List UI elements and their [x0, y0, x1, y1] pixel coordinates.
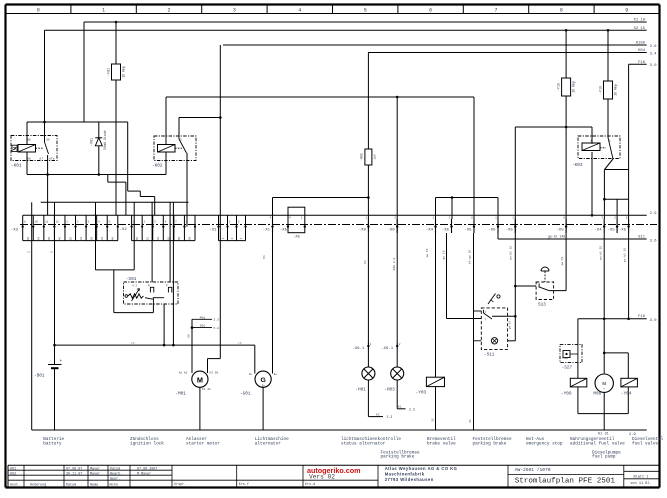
svg-text:K1 31: K1 31 [202, 388, 211, 391]
svg-text:3: 3 [233, 7, 236, 13]
svg-text:-X5: -X5 [607, 229, 615, 233]
svg-text:1: 1 [165, 139, 167, 142]
svg-text:additional fuel valve: additional fuel valve [570, 441, 625, 446]
svg-text:S13: S13 [538, 303, 546, 308]
svg-text:battery: battery [43, 441, 62, 446]
svg-text:5: 5 [180, 139, 182, 142]
svg-text:-X3: -X3 [11, 229, 19, 233]
svg-text:2.3: 2.3 [409, 408, 415, 412]
svg-text:-H03: -H03 [384, 388, 395, 393]
svg-text:-X1: -X1 [209, 229, 217, 233]
svg-text:-Y04: -Y04 [621, 392, 632, 397]
svg-text:6: 6 [429, 7, 432, 13]
svg-text:1: 1 [102, 7, 105, 13]
svg-text:86: 86 [27, 139, 31, 142]
svg-text:-X1: -X1 [263, 229, 271, 233]
svg-text:31: 31 [80, 237, 83, 241]
svg-text:16 Amp: 16 Amp [613, 84, 617, 96]
svg-text:12: 12 [56, 221, 60, 224]
svg-text:-S01: -S01 [126, 277, 137, 282]
svg-text:Stromlaufplan PFE 2501: Stromlaufplan PFE 2501 [515, 478, 616, 486]
svg-text:2: 2 [167, 7, 170, 13]
svg-text:ge-bl 140: ge-bl 140 [548, 235, 565, 239]
svg-text:0: 0 [37, 7, 40, 13]
svg-text:-X5: -X5 [293, 236, 301, 240]
svg-text:2.9: 2.9 [650, 212, 658, 216]
svg-text:F16: F16 [638, 61, 646, 65]
svg-text:fuel valve: fuel valve [632, 441, 658, 446]
svg-text:-M01: -M01 [175, 392, 186, 397]
svg-text:54: 54 [189, 237, 192, 241]
svg-text:rt: rt [238, 342, 242, 345]
svg-text:X2 15: X2 15 [634, 27, 646, 31]
svg-text:-X5: -X5 [464, 229, 472, 233]
svg-text:4: 4 [298, 7, 301, 13]
svg-text:-V01: -V01 [91, 138, 95, 146]
svg-text:A1 A2: A1 A2 [179, 371, 188, 374]
svg-text:-S27: -S27 [562, 365, 573, 370]
svg-text:ignition lock: ignition lock [130, 441, 164, 446]
svg-text:-X9: -X9 [359, 229, 367, 233]
svg-text:16 Amp: 16 Amp [122, 66, 126, 78]
svg-text:Gepr.: Gepr. [110, 476, 120, 481]
svg-text:-F01: -F01 [108, 68, 112, 76]
svg-text:-X5: -X5 [488, 229, 496, 233]
svg-text:-F16: -F16 [599, 86, 603, 94]
svg-text:parking brake: parking brake [473, 441, 507, 446]
svg-text:11: 11 [45, 221, 49, 224]
svg-text:starter motor: starter motor [186, 441, 220, 446]
svg-text:-X9: -X9 [387, 229, 395, 233]
svg-text:07.08.07: 07.08.07 [66, 467, 82, 471]
svg-text:002: 002 [10, 472, 16, 476]
svg-text:31: 31 [431, 418, 434, 422]
svg-text:7: 7 [494, 7, 497, 13]
svg-text:gr-bl 16: gr-bl 16 [623, 248, 627, 263]
svg-text:1: 1 [609, 140, 611, 143]
svg-text:2.3: 2.3 [387, 415, 393, 419]
svg-text:G: G [260, 377, 265, 384]
svg-text:3.0: 3.0 [650, 64, 658, 68]
svg-text:-K02: -K02 [152, 164, 163, 169]
svg-text:30.11.07: 30.11.07 [66, 472, 82, 476]
svg-text:30: 30 [46, 139, 50, 142]
svg-text:bl-ge 16: bl-ge 16 [468, 250, 472, 265]
svg-text:07.09.2007: 07.09.2007 [137, 467, 157, 471]
svg-text:B+: B+ [249, 373, 253, 376]
svg-text:-X9.1: -X9.1 [381, 347, 394, 351]
svg-text:1: 1 [400, 367, 402, 370]
svg-text:3.4: 3.4 [650, 52, 658, 56]
svg-text:2: 2 [28, 251, 31, 253]
svg-text:6: 6 [51, 251, 54, 253]
svg-text:Norm: Norm [110, 483, 118, 488]
svg-text:58: 58 [178, 237, 181, 241]
svg-text:Datum: Datum [110, 467, 120, 471]
svg-text:-X5: -X5 [556, 229, 564, 233]
svg-text:5.8: 5.8 [214, 327, 220, 330]
svg-text:sw 16: sw 16 [426, 248, 429, 257]
svg-text:45: 45 [48, 237, 51, 241]
svg-text:rt: rt [131, 342, 135, 345]
svg-text:sw-bl 25: sw-bl 25 [599, 246, 603, 261]
svg-text:-G01: -G01 [240, 392, 251, 397]
svg-text:M01: M01 [200, 316, 206, 319]
svg-text:parking brake: parking brake [381, 454, 415, 459]
svg-text:K2: K2 [376, 413, 380, 416]
svg-text:Datum: Datum [66, 484, 76, 488]
svg-text:M.Mayer: M.Mayer [137, 471, 151, 476]
svg-text:Gost.: Gost. [10, 484, 20, 488]
svg-text:1: 1 [370, 343, 372, 346]
svg-text:M08: M08 [593, 392, 601, 397]
svg-text:-Y03: -Y03 [416, 390, 427, 395]
svg-text:10: 10 [35, 221, 39, 224]
svg-text:1: 1 [371, 367, 373, 370]
svg-text:emergency stop: emergency stop [526, 441, 563, 446]
svg-text:-X5: -X5 [442, 229, 450, 233]
svg-text:3.0: 3.0 [650, 319, 658, 323]
svg-text:alternator: alternator [255, 441, 281, 446]
svg-text:Atlas Weyhausen AG & CO KG: Atlas Weyhausen AG & CO KG [385, 466, 458, 471]
svg-text:status alternator: status alternator [341, 441, 386, 446]
svg-text:1w5: 1w5 [374, 154, 377, 160]
svg-text:2: 2 [399, 343, 401, 346]
svg-text:K180: K180 [636, 42, 646, 46]
svg-text:31: 31 [469, 419, 472, 423]
svg-text:1: 1 [590, 140, 592, 143]
svg-text:Urspr.: Urspr. [174, 482, 186, 487]
svg-text:001: 001 [10, 467, 16, 471]
svg-text:16 Amp: 16 Amp [572, 81, 576, 93]
svg-text:3~: 3~ [262, 384, 266, 387]
svg-text:-B01: -B01 [34, 374, 45, 379]
svg-text:von 11 Bl.: von 11 Bl. [630, 481, 652, 486]
svg-text:-X5: -X5 [280, 229, 288, 233]
svg-text:15: 15 [146, 237, 149, 241]
svg-text:-S11: -S11 [484, 353, 495, 358]
svg-text:D01: D01 [200, 325, 206, 328]
svg-text:30: 30 [157, 237, 160, 241]
svg-text:26: 26 [69, 237, 72, 241]
svg-text:Maschinenfabrik: Maschinenfabrik [385, 472, 425, 477]
svg-text:Ers.d: Ers.d [305, 482, 315, 487]
svg-text:Mayer: Mayer [90, 466, 100, 471]
svg-text:sw-bl 16: sw-bl 16 [509, 246, 513, 261]
svg-text:Mayer: Mayer [90, 471, 100, 476]
svg-text:Vers 02: Vers 02 [309, 474, 335, 481]
svg-text:AW-2501 /1070: AW-2501 /1070 [515, 467, 551, 473]
svg-text:85: 85 [27, 158, 31, 161]
svg-text:K3 50: K3 50 [210, 371, 219, 374]
svg-text:+: + [60, 359, 63, 364]
svg-text:-F15: -F15 [558, 83, 562, 91]
svg-text:sw 51: sw 51 [561, 256, 564, 265]
svg-text:-X5: -X5 [619, 229, 627, 233]
svg-text:-X4: -X4 [426, 229, 434, 233]
svg-text:F16: F16 [638, 315, 646, 319]
svg-text:K1: K1 [398, 406, 402, 409]
svg-text:-K01: -K01 [11, 164, 22, 169]
svg-text:43: 43 [38, 237, 41, 241]
svg-text:K80 2.2: K80 2.2 [393, 258, 396, 271]
svg-text:61: 61 [263, 255, 266, 259]
svg-text:8: 8 [560, 7, 563, 13]
svg-text:fuel pump: fuel pump [592, 454, 616, 459]
svg-text:28: 28 [90, 237, 93, 241]
svg-text:K1 31: K1 31 [598, 432, 609, 436]
svg-text:50mA Diode: 50mA Diode [103, 130, 107, 149]
svg-text:50: 50 [136, 237, 139, 241]
svg-text:-H01: -H01 [355, 388, 366, 393]
svg-text:X1 10: X1 10 [634, 19, 646, 23]
svg-text:46: 46 [59, 237, 62, 241]
svg-text:Temp: Temp [562, 357, 569, 360]
svg-text:-X5: -X5 [506, 229, 514, 233]
svg-text:5: 5 [364, 7, 367, 13]
svg-text:S11: S11 [638, 235, 646, 239]
svg-text:33: 33 [101, 237, 104, 241]
svg-text:87a: 87a [49, 158, 55, 161]
svg-text:B+: B+ [274, 373, 278, 376]
svg-text:61: 61 [364, 260, 367, 264]
svg-text:ge 16: ge 16 [442, 250, 445, 259]
svg-text:42: 42 [27, 237, 30, 241]
svg-text:-R01: -R01 [360, 153, 364, 161]
svg-text:40: 40 [112, 237, 115, 241]
svg-text:-K03: -K03 [572, 163, 583, 168]
svg-text:brake valve: brake valve [427, 441, 456, 446]
svg-text:50: 50 [188, 334, 191, 338]
svg-text:87: 87 [39, 158, 43, 161]
svg-text:4 2: 4 2 [132, 285, 137, 288]
svg-text:Bearb.: Bearb. [110, 471, 122, 476]
svg-text:Änderung: Änderung [30, 483, 46, 488]
svg-text:-Y09: -Y09 [561, 392, 572, 397]
svg-text:K04: K04 [638, 49, 646, 53]
svg-text:3.6: 3.6 [650, 239, 658, 243]
svg-text:9: 9 [625, 7, 628, 13]
svg-text:-X9.1: -X9.1 [352, 347, 365, 351]
svg-text:27793 Wildeshausen: 27793 Wildeshausen [385, 477, 434, 482]
svg-text:2.6: 2.6 [650, 45, 658, 49]
svg-text:2.3: 2.3 [214, 319, 220, 322]
svg-text:Ers.f: Ers.f [239, 482, 249, 487]
svg-text:-X4: -X4 [594, 229, 602, 233]
svg-text:Name: Name [90, 484, 98, 488]
svg-text:-X2: -X2 [120, 228, 128, 232]
svg-text:ge-bl: ge-bl [508, 320, 512, 329]
svg-text:M: M [197, 375, 203, 384]
